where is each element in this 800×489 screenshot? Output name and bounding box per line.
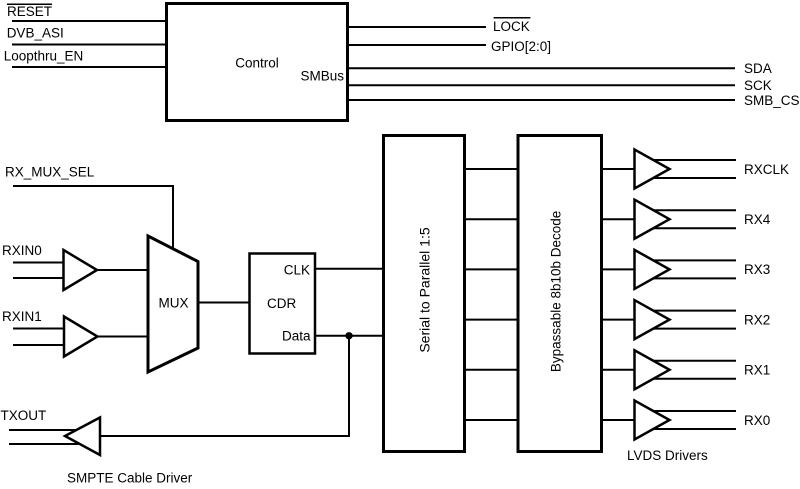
- svg-text:CDR: CDR: [267, 296, 296, 311]
- svg-text:RX0: RX0: [744, 413, 770, 428]
- svg-text:DVB_ASI: DVB_ASI: [7, 26, 64, 41]
- svg-text:RXCLK: RXCLK: [744, 162, 789, 177]
- svg-text:RX_MUX_SEL: RX_MUX_SEL: [5, 165, 95, 180]
- svg-text:RX4: RX4: [744, 212, 771, 227]
- svg-text:Bypassable 8b10b Decode: Bypassable 8b10b Decode: [549, 211, 564, 372]
- svg-text:Control: Control: [235, 56, 279, 71]
- svg-text:SMB_CS: SMB_CS: [744, 93, 800, 108]
- svg-text:LVDS Drivers: LVDS Drivers: [627, 448, 708, 463]
- svg-text:SMBus: SMBus: [300, 69, 344, 84]
- svg-text:CLK: CLK: [284, 263, 310, 278]
- svg-text:RX3: RX3: [744, 262, 770, 277]
- svg-text:SDA: SDA: [744, 61, 772, 76]
- svg-text:Serial to Parallel 1:5: Serial to Parallel 1:5: [417, 227, 433, 353]
- svg-text:RX1: RX1: [744, 363, 770, 378]
- svg-text:RESET: RESET: [7, 4, 52, 19]
- svg-text:LOCK: LOCK: [493, 19, 530, 34]
- svg-text:SMPTE Cable Driver: SMPTE Cable Driver: [67, 471, 193, 486]
- svg-text:RXIN0: RXIN0: [2, 243, 42, 258]
- svg-text:SCK: SCK: [744, 78, 772, 93]
- svg-text:GPIO[2:0]: GPIO[2:0]: [491, 39, 551, 54]
- svg-text:Data: Data: [282, 329, 311, 344]
- svg-text:RX2: RX2: [744, 312, 770, 327]
- svg-text:MUX: MUX: [159, 296, 189, 311]
- svg-text:RXIN1: RXIN1: [2, 309, 42, 324]
- svg-text:Loopthru_EN: Loopthru_EN: [4, 48, 84, 63]
- svg-text:TXOUT: TXOUT: [1, 408, 47, 423]
